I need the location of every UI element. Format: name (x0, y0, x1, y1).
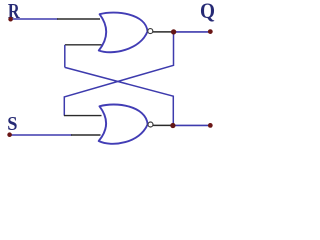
wire R input (blue) (12, 18, 59, 20)
svg-text:Q: Q (200, 0, 215, 23)
bubble U2 output (148, 122, 153, 127)
wire U1 output to junction (black) (153, 31, 172, 33)
wire diagonal A (from top junction to lower left) (64, 32, 173, 116)
wire junction to Qbar end (blue) (173, 124, 210, 126)
wire U2 output to junction (black) (153, 124, 172, 126)
terminal node Q (208, 29, 213, 34)
wire U1 input2 stub (black) (65, 44, 102, 46)
junction node top (171, 29, 176, 34)
wire R stub into gate U1 (black) (57, 18, 100, 20)
bubble U1 output (148, 29, 153, 34)
wire feedback upper-left corner vertical (64, 45, 66, 68)
junction node bottom (170, 123, 175, 128)
terminal node Qbar (208, 123, 213, 128)
svg-text:S: S (7, 113, 17, 135)
NOR gate U1 (top) (99, 13, 148, 53)
wire junction to Q (blue) (174, 31, 211, 33)
wire S input (blue) (11, 134, 72, 136)
wire diagonal B (to lower right) (65, 67, 174, 125)
wire S stub into gate U2 (black) (71, 134, 101, 136)
NOR gate U2 (bottom) (99, 104, 148, 143)
terminal node S (7, 132, 12, 137)
wire U2 input1 stub (black) (64, 115, 102, 117)
terminal node R (8, 17, 13, 22)
